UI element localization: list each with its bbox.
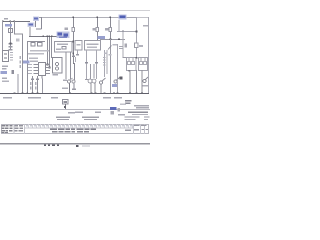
tick y31 x123 bbox=[122, 31, 124, 32]
node rail x141 bbox=[141, 92, 143, 94]
G1 label stack bbox=[10, 52, 13, 61]
pin text t2 bbox=[28, 67, 32, 68]
label 30 bbox=[4, 18, 8, 20]
lamp E1 bbox=[88, 79, 92, 83]
node x51 y36 bbox=[51, 36, 53, 38]
caption center right l1 bbox=[82, 117, 99, 118]
fuse F1 label bbox=[65, 28, 69, 31]
wire x37 to rail bbox=[37, 76, 38, 94]
K4 text a bbox=[57, 44, 68, 45]
A1 pin wire r3 bbox=[46, 70, 51, 71]
ruler cells bbox=[28, 124, 133, 128]
A1 pin wire r1 bbox=[46, 64, 51, 65]
switch S5 lever bbox=[116, 78, 120, 81]
left border wire x2 bbox=[2, 21, 3, 50]
G3 tick bbox=[118, 108, 121, 112]
text right above border l1 bbox=[125, 100, 132, 102]
title block frame bbox=[1, 124, 149, 134]
jog x73 to x74 bbox=[73, 63, 75, 64]
fuse F2 label bbox=[93, 28, 97, 31]
A1 bottom stub bbox=[42, 76, 43, 79]
wire vertical x14 bbox=[14, 21, 15, 35]
ground point G2 box bbox=[63, 100, 69, 105]
wire x49 down bbox=[49, 37, 50, 67]
wire x122 to loop bbox=[123, 57, 128, 58]
A1 pin wire l3 bbox=[34, 70, 39, 71]
wire x74 below bbox=[74, 84, 75, 89]
wire label rotated x74 bbox=[75, 57, 76, 62]
connector marks on x10 bbox=[9, 43, 13, 44]
connector stack x104 bbox=[103, 57, 106, 66]
rail node x91 bbox=[91, 92, 93, 94]
text x104 y52 bbox=[104, 53, 108, 54]
resistor label bbox=[139, 45, 143, 47]
text above A1 label bbox=[29, 58, 38, 59]
node x73 top bbox=[72, 16, 74, 18]
K4 symbol bbox=[62, 47, 66, 50]
inner bottom border bbox=[0, 109, 150, 110]
rail node x113 bbox=[113, 92, 115, 94]
table description l2 bbox=[52, 131, 89, 132]
tick x77 bbox=[76, 54, 79, 55]
A3 text bbox=[77, 44, 81, 45]
rail node x32 bbox=[32, 92, 34, 94]
G1 plate a bbox=[4, 54, 7, 55]
switch S4 lever bbox=[102, 78, 106, 82]
caption below b bbox=[95, 112, 101, 113]
wire x47 down bbox=[47, 37, 48, 64]
module A4 box bbox=[85, 41, 101, 51]
module A1 box bbox=[39, 63, 46, 76]
node x47 y64 bbox=[47, 64, 49, 66]
wire S4 low bbox=[101, 84, 102, 94]
label under rail a bbox=[3, 97, 12, 99]
node x110 top bbox=[109, 16, 111, 18]
S6 text bbox=[143, 85, 149, 86]
wire y34 left bbox=[14, 34, 23, 35]
node rail x129 bbox=[129, 92, 131, 94]
fuse F3 bbox=[109, 28, 112, 32]
A2 contact a bbox=[55, 62, 58, 65]
node x49 y67 bbox=[49, 67, 51, 69]
wire x70 down bbox=[70, 52, 71, 79]
text light x120 bbox=[120, 104, 126, 106]
wire x69 to rail bbox=[69, 84, 70, 95]
caption right l3 bbox=[125, 116, 140, 117]
lamp E2 bbox=[92, 79, 96, 83]
wire K3 down bbox=[119, 20, 120, 31]
wire x96 down bbox=[96, 50, 97, 79]
wire y31 right bbox=[117, 31, 137, 32]
right border wire x148 bbox=[148, 17, 149, 94]
label under rail b bbox=[28, 97, 41, 99]
wire K2 down bbox=[30, 27, 31, 37]
connector box small left bbox=[9, 29, 13, 33]
wire x86 down bbox=[86, 50, 87, 79]
node rail15 x10 bbox=[10, 21, 12, 23]
wire gauge text x20 bbox=[20, 56, 22, 68]
wire y39 mid bbox=[100, 39, 125, 40]
node x118 y39 bbox=[118, 38, 120, 40]
wire y41 bbox=[27, 41, 45, 42]
wire x117 bbox=[117, 44, 118, 93]
pin text t4 bbox=[28, 73, 32, 74]
right cells text bbox=[125, 125, 148, 131]
wire loop left down bbox=[130, 70, 131, 94]
text right top bbox=[143, 25, 149, 27]
switch S3 bbox=[63, 78, 75, 83]
caption right l3b bbox=[144, 116, 150, 117]
label blue A1 bbox=[23, 61, 30, 64]
motor M1 blue label bbox=[112, 84, 117, 87]
switch on x110 bbox=[108, 46, 112, 50]
wire x17 down bbox=[18, 74, 19, 94]
A4 text row2 bbox=[87, 47, 97, 48]
caption below d bbox=[118, 114, 125, 115]
caption right l4b bbox=[144, 119, 148, 120]
A4 text row1 bbox=[87, 44, 99, 45]
switch S6 lever bbox=[145, 77, 148, 80]
tick x73 y56 bbox=[72, 56, 75, 58]
wire rail 15 left bbox=[2, 21, 30, 22]
page footer rule bbox=[0, 143, 150, 145]
caption text upper line1 bbox=[30, 50, 49, 51]
G1 plate b bbox=[4, 58, 7, 59]
tick x86 bbox=[85, 62, 88, 64]
wire x110 mid bbox=[110, 39, 111, 94]
ground rail 31 bbox=[0, 93, 149, 94]
switch S4 contact bbox=[99, 81, 102, 84]
node x97 top bbox=[96, 16, 98, 18]
text right aligned l2 bbox=[136, 107, 149, 108]
wire x74 lower bbox=[74, 63, 75, 80]
node x10 y43 bbox=[10, 43, 12, 45]
wire x51 down bbox=[51, 37, 52, 58]
node x70 rail31 bbox=[69, 92, 71, 94]
switch Sb on y41 bbox=[38, 43, 43, 47]
text right of A1 label2 bbox=[30, 61, 38, 62]
A2 contact b bbox=[55, 67, 58, 70]
resistor on x136 bbox=[135, 43, 139, 48]
battery G1 box bbox=[3, 51, 9, 62]
caption right l1 bbox=[128, 112, 148, 113]
lamp loop left box bbox=[127, 58, 137, 71]
module A2 box bbox=[53, 58, 63, 74]
caption right l4 bbox=[125, 119, 136, 120]
wire x122 vertical bbox=[123, 32, 124, 57]
text left low bbox=[2, 66, 8, 68]
label under rail c bbox=[51, 97, 58, 99]
left small marks y77 bbox=[2, 78, 7, 80]
label under rail e bbox=[114, 97, 122, 99]
ruler cell text bbox=[26, 125, 132, 127]
G2 wire bbox=[65, 104, 66, 109]
G3 symbol bbox=[111, 111, 115, 115]
text x112 y44 bbox=[113, 44, 118, 45]
A1 pin wire l1 bbox=[34, 64, 39, 65]
text right aligned l1 bbox=[134, 105, 149, 106]
footer marks bbox=[44, 145, 59, 147]
node rail15 x2 bbox=[2, 21, 4, 23]
arrow comp x121 bbox=[120, 77, 123, 80]
page header rule bbox=[0, 10, 150, 11]
wire bus y36 bbox=[29, 36, 57, 37]
capacitor C1 bbox=[119, 46, 123, 49]
fuse F1 bbox=[72, 28, 75, 32]
node x110 y39 bbox=[110, 38, 112, 40]
rail node x37 bbox=[37, 92, 39, 94]
wire x22 down bbox=[22, 34, 23, 95]
switch right area bbox=[125, 44, 128, 48]
node x73 y53 bbox=[72, 53, 74, 55]
A1 pin wire l4 bbox=[34, 73, 39, 74]
caption below a bbox=[75, 112, 83, 114]
rail node x95 bbox=[95, 92, 97, 94]
wire x73 vertical bbox=[73, 17, 74, 63]
text left low2 bbox=[2, 68, 7, 70]
connector small x12 bbox=[12, 70, 15, 74]
text under S3 bbox=[62, 88, 68, 90]
wire x65 down bbox=[66, 52, 67, 79]
wire x97 vertical bbox=[97, 17, 98, 41]
wire K3 right bbox=[127, 17, 137, 18]
wire loop mid down bbox=[136, 70, 137, 94]
lamp loop right box bbox=[139, 58, 148, 71]
node x73 y41 bbox=[72, 41, 74, 43]
legend separators bbox=[14, 124, 15, 134]
rail node x22 bbox=[22, 92, 24, 94]
node x47 y36 bbox=[47, 36, 49, 38]
wire x106 bbox=[107, 50, 108, 74]
fuse F3 label bbox=[105, 28, 109, 31]
wires to lamps bbox=[90, 64, 91, 79]
relay K1 bbox=[33, 17, 41, 28]
switch Sa on y41 bbox=[31, 43, 35, 47]
wire y29 to K2 bbox=[36, 29, 42, 30]
node rail15 x14 bbox=[14, 21, 16, 23]
G2 text bbox=[64, 101, 68, 103]
label under rail d bbox=[103, 97, 111, 99]
relay K3 highlighted bbox=[119, 15, 127, 20]
node x136 y31 bbox=[136, 31, 138, 33]
wire rail30 faint right bbox=[137, 17, 149, 18]
wire rail 30 top main bbox=[41, 17, 137, 18]
rail node x104 bbox=[104, 92, 106, 94]
marks x108 y54 bbox=[109, 54, 112, 55]
gauge text x31 bbox=[30, 82, 32, 90]
wire x77 down bbox=[77, 50, 78, 55]
legend text left bbox=[2, 125, 13, 133]
connector X1 highlighted bbox=[57, 32, 70, 39]
wire x42 to rail bbox=[42, 79, 43, 95]
node loop left bottom bbox=[128, 70, 130, 72]
wire x110 vertical bbox=[110, 17, 111, 39]
tick x37 bbox=[36, 79, 39, 81]
relay K2 bbox=[28, 23, 35, 28]
label blue bottom left bbox=[1, 71, 8, 74]
pin text t3 bbox=[28, 70, 32, 71]
wire x41 from rail bbox=[41, 17, 42, 29]
node x27 rail31 bbox=[26, 92, 28, 94]
caption text upper line2 bbox=[28, 53, 44, 54]
wire vertical x27 bbox=[27, 41, 28, 93]
A1 pin wire r4 bbox=[46, 73, 51, 74]
pin text t1 bbox=[28, 64, 32, 65]
A2 label below bbox=[53, 74, 59, 76]
A1 pin wire l2 bbox=[34, 67, 39, 68]
node x49 y36 bbox=[49, 36, 51, 38]
node loops top bbox=[136, 57, 138, 59]
rail node x14 bbox=[14, 92, 16, 94]
fuse F2 bbox=[96, 28, 99, 32]
tick x32 bbox=[31, 79, 34, 81]
table description l1 bbox=[50, 129, 96, 130]
relay box K4 bbox=[55, 42, 73, 53]
label blue left top bbox=[5, 24, 12, 27]
switch S6 right bbox=[143, 79, 146, 82]
wire x32 to rail bbox=[32, 76, 33, 94]
legend text left col2 bbox=[15, 125, 24, 131]
gauge text x36 bbox=[35, 82, 37, 90]
tick left of E1 bbox=[85, 79, 88, 80]
caption center left l1 bbox=[56, 117, 70, 118]
caption right l2 bbox=[132, 114, 148, 115]
rail node x117 bbox=[117, 92, 119, 94]
A1 pin wire r2 bbox=[46, 67, 51, 68]
footer text bbox=[82, 145, 90, 146]
label S blue mid bbox=[98, 36, 106, 39]
footer dot bbox=[76, 145, 79, 147]
caption center right l2 bbox=[84, 119, 97, 120]
caption center left l2 bbox=[57, 119, 69, 120]
wire x104 bbox=[104, 50, 105, 77]
node rail x136 bbox=[136, 92, 138, 94]
wire x136 vertical bbox=[136, 17, 137, 57]
ground label G3 blue bbox=[110, 107, 117, 110]
G2 node bbox=[64, 106, 66, 108]
tick x96 bbox=[95, 62, 98, 64]
right cells separators bbox=[133, 124, 145, 134]
tick x74 y88 bbox=[72, 89, 76, 90]
text right of x14 bbox=[16, 39, 20, 42]
caption below c bbox=[68, 112, 75, 113]
left small marks y80 bbox=[2, 81, 9, 83]
wire loop right down bbox=[142, 70, 143, 94]
text right above border l2 bbox=[125, 102, 131, 104]
wire vertical x10 bbox=[10, 21, 11, 51]
switch S5 contact bbox=[114, 80, 117, 83]
K4 text b bbox=[56, 49, 61, 50]
module A3 box bbox=[75, 41, 82, 51]
